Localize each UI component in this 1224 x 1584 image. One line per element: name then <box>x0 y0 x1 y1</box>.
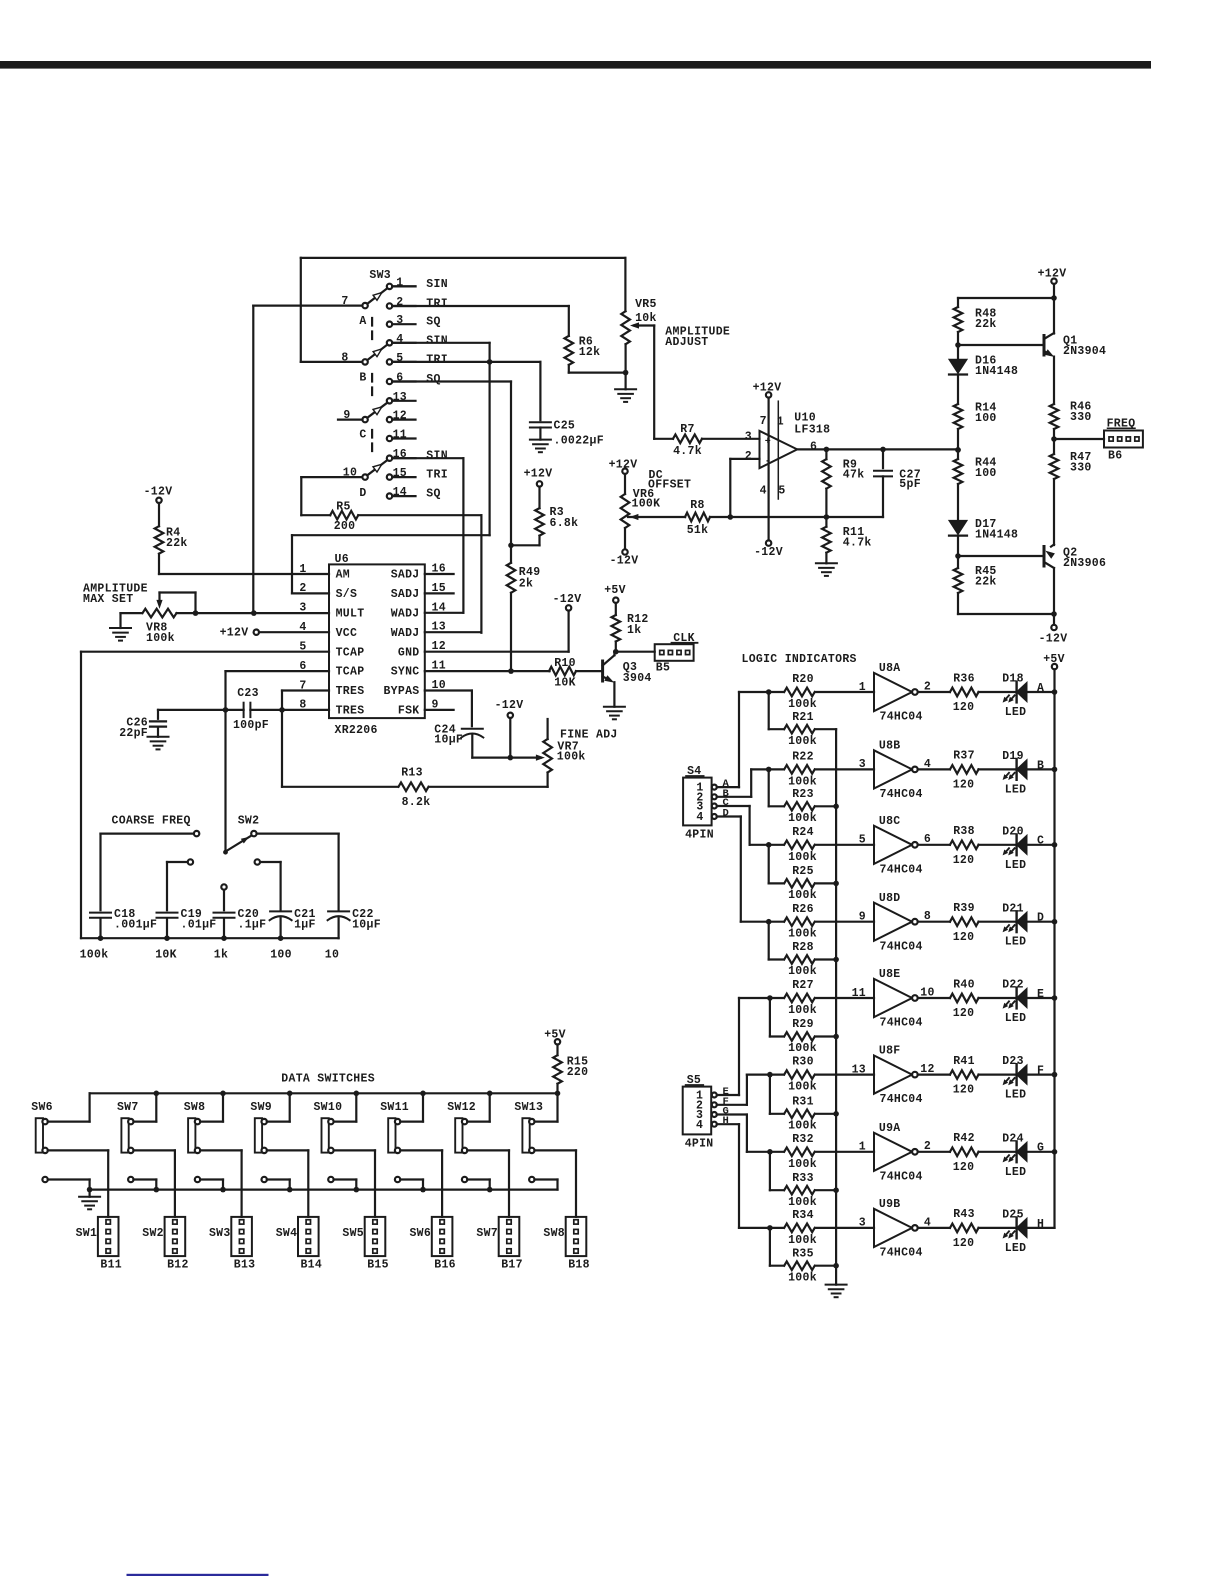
svg-text:R29: R29 <box>792 1018 814 1031</box>
svg-text:VCC: VCC <box>336 627 358 640</box>
svg-text:R10: R10 <box>554 657 576 670</box>
svg-text:D19: D19 <box>1002 750 1024 763</box>
svg-text:SQ: SQ <box>426 373 440 386</box>
svg-text:100k: 100k <box>557 750 586 763</box>
svg-text:SW2: SW2 <box>238 815 260 828</box>
svg-text:R22: R22 <box>792 751 814 764</box>
svg-text:-12V: -12V <box>495 699 524 712</box>
svg-text:SW11: SW11 <box>380 1101 409 1114</box>
svg-text:51k: 51k <box>687 524 709 537</box>
svg-text:MULT: MULT <box>336 607 365 620</box>
svg-text:4.7k: 4.7k <box>843 537 872 550</box>
svg-text:U8B: U8B <box>879 740 901 753</box>
svg-text:100: 100 <box>975 412 997 425</box>
svg-text:R26: R26 <box>792 903 814 916</box>
svg-text:H: H <box>723 1115 730 1127</box>
svg-text:S/S: S/S <box>336 588 358 601</box>
svg-text:U8E: U8E <box>879 968 901 981</box>
svg-text:100k: 100k <box>788 1081 817 1094</box>
svg-text:R34: R34 <box>792 1209 814 1222</box>
svg-text:TRES: TRES <box>336 705 365 718</box>
svg-text:SW3: SW3 <box>369 269 391 282</box>
svg-text:U8D: U8D <box>879 892 901 905</box>
svg-text:D23: D23 <box>1002 1055 1024 1068</box>
svg-text:120: 120 <box>953 1237 975 1250</box>
svg-text:SW10: SW10 <box>313 1101 342 1114</box>
svg-text:74HC04: 74HC04 <box>880 1017 923 1030</box>
svg-text:3: 3 <box>859 1217 866 1230</box>
svg-text:120: 120 <box>953 1084 975 1097</box>
svg-text:100k: 100k <box>146 632 175 645</box>
svg-text:1k: 1k <box>627 624 641 637</box>
svg-text:200: 200 <box>334 520 356 533</box>
svg-text:2: 2 <box>745 450 752 463</box>
svg-text:R39: R39 <box>953 902 975 915</box>
svg-text:SADJ: SADJ <box>391 588 420 601</box>
svg-text:.0022μF: .0022μF <box>554 435 604 448</box>
svg-text:TRI: TRI <box>426 353 448 366</box>
svg-text:8.2k: 8.2k <box>402 796 431 809</box>
svg-text:U9A: U9A <box>879 1122 901 1135</box>
svg-text:74HC04: 74HC04 <box>880 940 923 953</box>
svg-text:SW8: SW8 <box>184 1101 206 1114</box>
svg-text:LED: LED <box>1005 1089 1027 1102</box>
svg-text:74HC04: 74HC04 <box>880 1093 923 1106</box>
svg-text:13: 13 <box>852 1063 866 1076</box>
svg-text:4: 4 <box>760 484 767 497</box>
svg-text:R28: R28 <box>792 941 814 954</box>
svg-text:330: 330 <box>1070 461 1092 474</box>
svg-text:100k: 100k <box>788 1119 817 1132</box>
svg-text:MAX SET: MAX SET <box>83 593 133 606</box>
svg-text:DATA SWITCHES: DATA SWITCHES <box>281 1073 375 1086</box>
svg-text:2k: 2k <box>519 578 533 591</box>
svg-text:3: 3 <box>859 758 866 771</box>
svg-text:R5: R5 <box>336 500 350 513</box>
svg-text:SW6: SW6 <box>409 1227 431 1240</box>
svg-text:1k: 1k <box>214 949 228 962</box>
svg-text:D21: D21 <box>1002 902 1024 915</box>
svg-text:100k: 100k <box>788 1271 817 1284</box>
svg-text:2N3906: 2N3906 <box>1063 557 1106 570</box>
svg-text:SQ: SQ <box>426 316 440 329</box>
svg-text:A: A <box>359 315 366 328</box>
svg-text:SIN: SIN <box>426 334 448 347</box>
svg-text:120: 120 <box>953 701 975 714</box>
svg-text:WADJ: WADJ <box>391 627 420 640</box>
svg-text:SW2: SW2 <box>142 1227 164 1240</box>
svg-text:SIN: SIN <box>426 278 448 291</box>
svg-text:B14: B14 <box>300 1258 322 1271</box>
svg-text:SW8: SW8 <box>543 1227 565 1240</box>
svg-text:100k: 100k <box>788 965 817 978</box>
svg-text:D22: D22 <box>1002 979 1024 992</box>
svg-text:4: 4 <box>696 1119 703 1132</box>
svg-text:5pF: 5pF <box>899 478 921 491</box>
svg-text:C23: C23 <box>237 687 259 700</box>
svg-text:22k: 22k <box>166 537 188 550</box>
svg-text:100k: 100k <box>788 735 817 748</box>
svg-text:SW5: SW5 <box>342 1227 364 1240</box>
svg-text:6: 6 <box>810 440 817 453</box>
svg-text:R40: R40 <box>953 978 975 991</box>
svg-text:SADJ: SADJ <box>391 569 420 582</box>
svg-text:LED: LED <box>1005 1242 1027 1255</box>
svg-text:100: 100 <box>270 949 292 962</box>
svg-text:B18: B18 <box>568 1258 590 1271</box>
svg-text:LED: LED <box>1005 936 1027 949</box>
svg-text:12k: 12k <box>579 346 601 359</box>
svg-text:U8C: U8C <box>879 815 901 828</box>
svg-text:100k: 100k <box>788 1196 817 1209</box>
svg-text:120: 120 <box>953 931 975 944</box>
svg-text:SW7: SW7 <box>117 1101 139 1114</box>
svg-text:TRI: TRI <box>426 298 448 311</box>
svg-text:SW7: SW7 <box>476 1227 498 1240</box>
svg-text:100k: 100k <box>788 1234 817 1247</box>
svg-text:B5: B5 <box>656 662 670 675</box>
svg-text:22k: 22k <box>975 575 997 588</box>
svg-text:D25: D25 <box>1002 1209 1024 1222</box>
svg-text:+5V: +5V <box>604 584 626 597</box>
svg-text:SW12: SW12 <box>447 1101 476 1114</box>
svg-text:B15: B15 <box>367 1258 389 1271</box>
svg-text:R31: R31 <box>792 1096 814 1109</box>
svg-text:H: H <box>1037 1218 1044 1231</box>
svg-text:R13: R13 <box>401 767 423 780</box>
svg-text:SW4: SW4 <box>276 1227 298 1240</box>
svg-text:A: A <box>1037 682 1044 695</box>
svg-text:-12V: -12V <box>610 554 639 567</box>
svg-text:B6: B6 <box>1108 449 1122 462</box>
svg-text:.01μF: .01μF <box>181 918 217 931</box>
svg-text:.001μF: .001μF <box>114 918 157 931</box>
svg-text:+12V: +12V <box>753 381 782 394</box>
svg-text:-12V: -12V <box>1039 633 1068 646</box>
svg-text:1: 1 <box>859 1141 866 1154</box>
svg-text:14: 14 <box>393 486 407 499</box>
svg-text:COARSE FREQ: COARSE FREQ <box>112 815 191 828</box>
svg-text:100k: 100k <box>80 949 109 962</box>
svg-text:11: 11 <box>852 987 866 1000</box>
svg-text:100k: 100k <box>788 1004 817 1017</box>
svg-text:F: F <box>1037 1065 1044 1078</box>
svg-text:C25: C25 <box>554 420 576 433</box>
svg-text:+12V: +12V <box>524 467 553 480</box>
svg-text:VR5: VR5 <box>635 298 657 311</box>
svg-text:R33: R33 <box>792 1172 814 1185</box>
svg-text:5: 5 <box>778 484 785 497</box>
svg-text:R38: R38 <box>953 825 975 838</box>
svg-text:ADJUST: ADJUST <box>665 336 708 349</box>
svg-text:SQ: SQ <box>426 488 440 501</box>
svg-text:3904: 3904 <box>623 672 652 685</box>
svg-text:SW13: SW13 <box>514 1101 543 1114</box>
svg-text:R21: R21 <box>792 711 814 724</box>
svg-text:1: 1 <box>777 416 784 429</box>
svg-text:3: 3 <box>745 431 752 444</box>
svg-text:47k: 47k <box>843 468 865 481</box>
svg-text:74HC04: 74HC04 <box>880 788 923 801</box>
svg-text:R20: R20 <box>792 673 814 686</box>
svg-text:R23: R23 <box>792 788 814 801</box>
svg-text:100k: 100k <box>788 775 817 788</box>
svg-text:WADJ: WADJ <box>391 607 420 620</box>
svg-text:74HC04: 74HC04 <box>880 1170 923 1183</box>
svg-text:R41: R41 <box>953 1055 975 1068</box>
svg-text:2N3904: 2N3904 <box>1063 345 1106 358</box>
svg-text:R42: R42 <box>953 1132 975 1145</box>
svg-text:-12V: -12V <box>754 546 783 559</box>
svg-text:120: 120 <box>953 779 975 792</box>
svg-text:1: 1 <box>859 681 866 694</box>
svg-text:AM: AM <box>336 569 350 582</box>
svg-text:7: 7 <box>760 415 767 428</box>
svg-text:100k: 100k <box>788 1042 817 1055</box>
svg-text:R43: R43 <box>953 1208 975 1221</box>
svg-text:R8: R8 <box>690 499 704 512</box>
svg-text:74HC04: 74HC04 <box>880 863 923 876</box>
svg-text:SW3: SW3 <box>209 1227 231 1240</box>
svg-text:LED: LED <box>1005 783 1027 796</box>
svg-text:XR2206: XR2206 <box>335 724 378 737</box>
svg-text:6.8k: 6.8k <box>550 517 579 530</box>
svg-text:74HC04: 74HC04 <box>880 1247 923 1260</box>
svg-text:SW1: SW1 <box>76 1227 98 1240</box>
svg-text:10μF: 10μF <box>352 918 381 931</box>
svg-text:+12V: +12V <box>220 626 249 639</box>
svg-text:22k: 22k <box>975 318 997 331</box>
svg-text:LED: LED <box>1005 1012 1027 1025</box>
svg-text:B: B <box>1037 759 1044 772</box>
svg-text:4PIN: 4PIN <box>685 1137 714 1150</box>
svg-text:-12V: -12V <box>144 485 173 498</box>
svg-text:220: 220 <box>567 1066 589 1079</box>
svg-text:100k: 100k <box>788 889 817 902</box>
svg-text:B17: B17 <box>501 1258 523 1271</box>
svg-text:100: 100 <box>975 467 997 480</box>
svg-text:D24: D24 <box>1002 1132 1024 1145</box>
svg-text:100k: 100k <box>788 851 817 864</box>
svg-text:10μF: 10μF <box>434 734 463 747</box>
svg-text:100K: 100K <box>632 498 661 511</box>
svg-text:120: 120 <box>953 1161 975 1174</box>
svg-text:13: 13 <box>393 391 407 404</box>
svg-text:U6: U6 <box>335 553 349 566</box>
svg-text:3: 3 <box>396 314 403 327</box>
svg-text:U8F: U8F <box>879 1045 901 1058</box>
svg-text:-12V: -12V <box>553 593 582 606</box>
svg-text:R32: R32 <box>792 1133 814 1146</box>
svg-text:LOGIC INDICATORS: LOGIC INDICATORS <box>742 653 857 666</box>
svg-text:D: D <box>359 487 366 500</box>
svg-text:D: D <box>1037 912 1044 925</box>
svg-text:R25: R25 <box>792 865 814 878</box>
svg-text:SW6: SW6 <box>31 1101 53 1114</box>
svg-text:100k: 100k <box>788 812 817 825</box>
svg-text:SYNC: SYNC <box>391 666 420 679</box>
svg-text:D18: D18 <box>1002 673 1024 686</box>
svg-text:100k: 100k <box>788 698 817 711</box>
svg-text:R36: R36 <box>953 672 975 685</box>
svg-text:LED: LED <box>1005 706 1027 719</box>
svg-text:TRI: TRI <box>426 469 448 482</box>
svg-text:B16: B16 <box>434 1258 456 1271</box>
svg-text:5: 5 <box>859 834 866 847</box>
svg-text:TCAP: TCAP <box>336 666 365 679</box>
svg-text:U8A: U8A <box>879 662 901 675</box>
svg-text:TRES: TRES <box>336 685 365 698</box>
svg-text:15: 15 <box>393 467 407 480</box>
svg-text:FSK: FSK <box>398 705 420 718</box>
svg-text:G: G <box>1037 1142 1044 1155</box>
svg-text:E: E <box>1037 988 1044 1001</box>
svg-text:B13: B13 <box>234 1258 256 1271</box>
svg-text:10K: 10K <box>554 677 576 690</box>
svg-text:120: 120 <box>953 854 975 867</box>
svg-text:.1μF: .1μF <box>238 918 267 931</box>
svg-text:100k: 100k <box>788 1158 817 1171</box>
svg-text:R35: R35 <box>792 1247 814 1260</box>
svg-text:12: 12 <box>393 410 407 423</box>
svg-text:1N4148: 1N4148 <box>975 528 1018 541</box>
svg-text:D20: D20 <box>1002 825 1024 838</box>
svg-text:R24: R24 <box>792 826 814 839</box>
svg-text:330: 330 <box>1070 411 1092 424</box>
svg-text:B: B <box>359 372 366 385</box>
svg-text:74HC04: 74HC04 <box>880 711 923 724</box>
svg-text:4.7k: 4.7k <box>673 445 702 458</box>
svg-text:B12: B12 <box>167 1258 189 1271</box>
svg-text:R27: R27 <box>792 979 814 992</box>
svg-text:100pF: 100pF <box>233 719 269 732</box>
svg-text:C: C <box>359 429 366 442</box>
svg-text:B11: B11 <box>100 1258 122 1271</box>
svg-text:4: 4 <box>696 811 703 824</box>
svg-text:R30: R30 <box>792 1056 814 1069</box>
svg-text:4PIN: 4PIN <box>685 828 714 841</box>
svg-text:SIN: SIN <box>426 450 448 463</box>
svg-text:D: D <box>723 808 730 820</box>
svg-text:9: 9 <box>859 911 866 924</box>
svg-text:OFFSET: OFFSET <box>648 479 691 492</box>
svg-text:11: 11 <box>393 429 407 442</box>
svg-text:R37: R37 <box>953 750 975 763</box>
svg-text:SW9: SW9 <box>250 1101 272 1114</box>
svg-text:LED: LED <box>1005 1166 1027 1179</box>
svg-text:BYPAS: BYPAS <box>383 685 419 698</box>
svg-text:LED: LED <box>1005 859 1027 872</box>
svg-text:1N4148: 1N4148 <box>975 365 1018 378</box>
svg-text:1: 1 <box>299 563 306 576</box>
svg-text:1μF: 1μF <box>294 918 316 931</box>
svg-text:TCAP: TCAP <box>336 646 365 659</box>
svg-text:LF318: LF318 <box>794 424 830 437</box>
svg-text:22pF: 22pF <box>119 727 148 740</box>
svg-text:120: 120 <box>953 1007 975 1020</box>
svg-text:3: 3 <box>299 602 306 615</box>
svg-text:R7: R7 <box>680 423 694 436</box>
svg-text:GND: GND <box>398 646 420 659</box>
svg-text:100k: 100k <box>788 928 817 941</box>
svg-text:U9B: U9B <box>879 1198 901 1211</box>
svg-text:10K: 10K <box>155 949 177 962</box>
svg-text:C: C <box>1037 835 1044 848</box>
svg-text:10k: 10k <box>635 312 657 325</box>
svg-text:10: 10 <box>325 949 339 962</box>
